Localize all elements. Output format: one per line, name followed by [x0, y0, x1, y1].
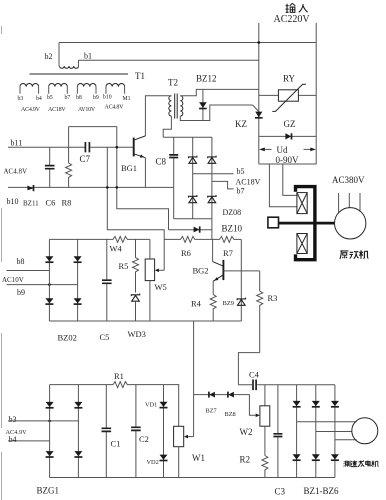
wire: Ud+ to generator field lower: [283, 164, 297, 195]
diode BZ3: [331, 401, 339, 407]
wire: jumper over b11 (R8 top to sampling column): [69, 126, 117, 128]
wire: b11 line (with series gap for C7): [8, 146, 133, 148]
svg-text:R8: R8: [62, 198, 72, 208]
svg-text:C3: C3: [275, 487, 286, 497]
wire: BZG1 right branch: [77, 385, 79, 478]
transformer T1 primary winding: [59, 43, 79, 69]
svg-text:R4: R4: [191, 299, 202, 309]
svg-text:b10: b10: [103, 95, 112, 101]
wire: T2 secondary top to KZ column: [180, 89, 258, 95]
labels T1 secondary terminals: [18, 95, 131, 103]
svg-text:BZ11: BZ11: [23, 200, 39, 208]
svg-text:b7: b7: [65, 95, 71, 101]
node: junction sampling column / b10: [116, 186, 119, 189]
diode BZ11: [27, 185, 33, 191]
capacitor C8: [169, 137, 178, 219]
svg-text:W4: W4: [110, 244, 123, 254]
diode BZ12: [199, 89, 207, 120]
svg-text:Ud: Ud: [277, 145, 288, 155]
transistor BG2: [213, 239, 224, 281]
wire: middle top rail left part with W4: [49, 236, 149, 242]
wire: BZG1 left branch: [49, 385, 51, 478]
wire: GZ line: [259, 135, 316, 137]
svg-text:AV10V: AV10V: [78, 107, 96, 113]
wire: AC220V right lead down: [315, 23, 317, 164]
svg-text:BZ02: BZ02: [58, 333, 77, 343]
diode BZ6: [331, 454, 339, 460]
svg-text:b10: b10: [7, 197, 19, 206]
tacho generator circle: [352, 418, 378, 444]
svg-text:AC18V: AC18V: [236, 178, 261, 187]
zener WD3: [131, 294, 139, 322]
wire: tacho phase line 3: [335, 439, 357, 441]
prime mover 3-phase leads: [339, 193, 360, 213]
arrow Ud left: [259, 148, 271, 152]
wire: sampling column down from jumper to DZ08 bottom net: [117, 127, 169, 230]
wire: BZ02 left branch: [48, 239, 50, 321]
svg-text:AC18V: AC18V: [48, 107, 66, 113]
wire: bottom rail: [50, 477, 335, 479]
diode BZ5: [312, 454, 320, 460]
potentiometer W1: [174, 385, 194, 478]
svg-text:VD2: VD2: [147, 459, 159, 466]
diode BZ7: [209, 392, 215, 398]
svg-text:b4: b4: [9, 435, 17, 444]
capacitor C6: [45, 147, 55, 187]
zener DZ08 bottom-left: [189, 195, 197, 203]
svg-text:BZG1: BZG1: [37, 486, 60, 496]
wire: top rail 1 (from T1 primary left to right column): [59, 42, 316, 44]
wire: DZ08 top rail: [163, 136, 212, 138]
svg-text:C5: C5: [100, 332, 110, 342]
svg-text:C7: C7: [80, 154, 91, 164]
wire: b8 line: [7, 270, 50, 272]
svg-text:WD3: WD3: [128, 329, 146, 339]
transformer T2 left winding: [169, 96, 172, 116]
svg-text:R1: R1: [114, 371, 124, 381]
svg-text:AC4.8V: AC4.8V: [105, 105, 125, 111]
capacitor C3: [273, 385, 282, 478]
diode BZ02 bottom-right: [74, 298, 82, 304]
svg-text:C2: C2: [139, 434, 149, 444]
wire: tacho bridge branch 3: [334, 385, 336, 478]
diode GZ: [285, 133, 291, 139]
svg-text:VD1: VD1: [145, 402, 157, 409]
svg-text:b4: b4: [36, 96, 42, 102]
resistor R5: [133, 239, 139, 292]
svg-text:BZ8: BZ8: [225, 411, 236, 418]
svg-text:0-90V: 0-90V: [276, 155, 299, 165]
wire: BZ10 line: [169, 229, 212, 231]
potentiometer W2: [260, 385, 270, 456]
wire: BG2 base line: [224, 270, 260, 272]
svg-text:BG1: BG1: [121, 163, 137, 173]
svg-text:R2: R2: [240, 455, 251, 465]
diode BZ1: [293, 401, 301, 407]
wire: b4 line: [8, 440, 50, 442]
varistor RY: [259, 84, 316, 111]
svg-text:b9: b9: [93, 95, 99, 101]
diode BZG1 top-right: [74, 402, 82, 408]
label 原动机 (prime mover): [340, 251, 349, 259]
diode VD1: [160, 402, 168, 408]
wire: DZ08 bottom rail: [174, 218, 212, 220]
svg-text:b2: b2: [45, 52, 53, 61]
svg-text:RY: RY: [283, 74, 296, 84]
wire: middle bottom rail: [49, 320, 241, 322]
svg-text:AC4.8V: AC4.8V: [4, 168, 28, 176]
svg-text:b11: b11: [11, 139, 23, 148]
svg-text:b8: b8: [17, 257, 25, 266]
wire: tacho bridge branch 1: [296, 385, 298, 478]
transformer T1 secondary winding b3-b4: [20, 84, 39, 94]
svg-text:b7: b7: [237, 187, 245, 196]
thyristor KZ: [253, 105, 263, 118]
svg-text:BZ10: BZ10: [222, 224, 243, 234]
Ud measurement box bottom: [259, 163, 316, 165]
resistor R2: [262, 456, 268, 478]
prime mover motor circle: [335, 208, 366, 239]
wire: BZ9 branch: [240, 239, 242, 321]
diode BZ4: [293, 454, 301, 460]
diode BZ02 bottom-left: [45, 298, 53, 304]
svg-text:BZ9: BZ9: [223, 300, 235, 307]
node: junction b3 / BZG1 left: [48, 420, 51, 423]
shaft coupling line: [279, 222, 335, 225]
generator field coil lower: [297, 234, 307, 254]
transistor BG1: [134, 136, 146, 158]
wire: Ud- to generator field upper: [269, 164, 296, 207]
capacitor C1: [102, 385, 112, 478]
node: junction sampling column / b11: [116, 146, 119, 149]
diode VD2: [160, 455, 168, 461]
diode BZ10: [194, 226, 200, 232]
svg-text:M1: M1: [123, 96, 131, 102]
svg-text:C1: C1: [111, 439, 121, 449]
diode BZ02 top-left: [45, 256, 53, 262]
svg-text:W2: W2: [240, 427, 253, 437]
diode BZG1 top-left: [46, 402, 54, 408]
wire: W1 wiper column from middle rail: [193, 321, 195, 437]
generator stator bracket: [296, 187, 315, 260]
svg-text:R5: R5: [119, 261, 129, 271]
diode BZ02 top-right: [74, 256, 82, 262]
svg-text:C6: C6: [46, 198, 56, 208]
label 输入 (input): [286, 3, 296, 12]
wire: R3 to C4 feedback line: [238, 353, 259, 385]
svg-text:BZ12: BZ12: [196, 74, 217, 84]
svg-text:R6: R6: [181, 248, 191, 258]
node: junction b9 / BZ02 left: [48, 283, 51, 286]
generator brush square: [268, 217, 279, 228]
wire: BZ02 right branch: [77, 239, 79, 321]
arrow into W2: [256, 414, 260, 418]
wire: C4 line: [238, 384, 335, 386]
capacitor C2: [131, 385, 141, 478]
svg-text:T1: T1: [135, 71, 145, 81]
svg-text:AC10V: AC10V: [2, 276, 24, 284]
svg-text:T2: T2: [168, 78, 178, 88]
svg-text:C4: C4: [249, 370, 260, 380]
transformer T2 core: [175, 94, 178, 119]
wire: DZ08 left branch: [192, 137, 194, 219]
label 测速发电机 (tacho generator): [344, 461, 350, 467]
svg-text:W1: W1: [192, 453, 205, 463]
arrow Ud right: [304, 148, 316, 152]
wire: DZ08 bottom to BG2 collector column: [211, 219, 213, 240]
wire: tacho bridge branch 2: [315, 385, 317, 478]
svg-text:AC380V: AC380V: [332, 175, 365, 185]
zener DZ08 top-right: [208, 156, 216, 164]
transformer T1 secondary winding b5-b7: [49, 84, 68, 94]
wire: BZ7-BZ8 line to W2 wiper: [194, 395, 258, 416]
zener DZ08 bottom-right: [208, 195, 216, 203]
svg-text:b8: b8: [76, 95, 82, 101]
svg-text:R7: R7: [223, 248, 233, 258]
wire: T2 primary bottom to DZ08 top rail: [163, 116, 171, 137]
wire: bottom-left top rail with R1: [50, 382, 180, 388]
wire: T2 primary top to BG1 collector: [145, 96, 171, 136]
diode BZ2: [312, 401, 320, 407]
node: junction rail1 / left column: [257, 41, 260, 44]
capacitor C4: [253, 380, 256, 391]
svg-text:b1: b1: [84, 52, 92, 61]
zener BZ9: [237, 298, 245, 306]
node: b11 tap junction: [106, 186, 109, 189]
wire: b5 input line: [193, 173, 234, 175]
transformer T1 secondary winding b8-b9: [77, 84, 96, 94]
wire: BG1 emitter down to b10 line: [144, 158, 146, 188]
svg-text:BZ7: BZ7: [206, 408, 217, 415]
resistor R4: [210, 281, 216, 321]
wire: tacho phase line 1: [297, 421, 357, 423]
resistor R8: [66, 127, 72, 188]
page edge scan artifact: [1, 26, 3, 500]
diode BZ8: [228, 392, 234, 398]
resistor R3: [257, 271, 263, 353]
wire: DZ08 right branch: [211, 137, 213, 219]
wire: rail 2 b1 (from T1 primary right to KZ column): [79, 59, 259, 61]
transformer T1 secondary winding b10-M1: [106, 84, 125, 94]
wire: b10 line: [8, 186, 174, 188]
svg-text:W5: W5: [155, 282, 167, 292]
svg-text:b3: b3: [18, 96, 24, 102]
svg-text:GZ: GZ: [284, 119, 296, 129]
diode BZG1 bottom-right: [74, 451, 82, 457]
wire: b3 line: [8, 420, 78, 422]
wire: tacho phase line 2: [316, 431, 352, 433]
potentiometer W5: [145, 239, 164, 321]
svg-text:BZ1-BZ6: BZ1-BZ6: [304, 486, 339, 496]
transformer T2 right winding: [180, 96, 183, 116]
svg-text:AC4.9V: AC4.9V: [21, 107, 41, 113]
wire: T2 secondary bottom to gate network: [180, 105, 252, 121]
wire: b9 line: [7, 284, 78, 286]
diode BZG1 bottom-left: [46, 451, 54, 457]
svg-text:b9: b9: [17, 288, 25, 297]
zener DZ08 top-left: [189, 156, 197, 164]
svg-text:b3: b3: [9, 415, 17, 424]
labels T1 secondary voltages: [21, 105, 124, 114]
wire: b7 input line with jog: [212, 181, 234, 189]
transformer T1 core: [30, 73, 129, 75]
wire: middle top rail right part with R6 R7: [164, 236, 241, 242]
svg-text:R3: R3: [268, 293, 278, 303]
capacitor C5: [102, 239, 112, 321]
wire: AC220V left lead down to rail1: [258, 23, 260, 164]
svg-text:BG2: BG2: [193, 266, 209, 276]
svg-text:DZ08: DZ08: [223, 208, 242, 217]
capacitor C7: [85, 142, 89, 152]
wire: VD branch: [163, 385, 165, 478]
svg-text:b5: b5: [237, 167, 245, 176]
svg-text:b5: b5: [47, 95, 53, 101]
svg-text:KZ: KZ: [235, 119, 247, 129]
generator field coil upper: [297, 193, 307, 214]
svg-text:AC220V: AC220V: [274, 14, 311, 25]
svg-text:C8: C8: [156, 157, 167, 167]
wire: b11 tap down to BZ10 net and W5 wiper: [107, 147, 164, 270]
